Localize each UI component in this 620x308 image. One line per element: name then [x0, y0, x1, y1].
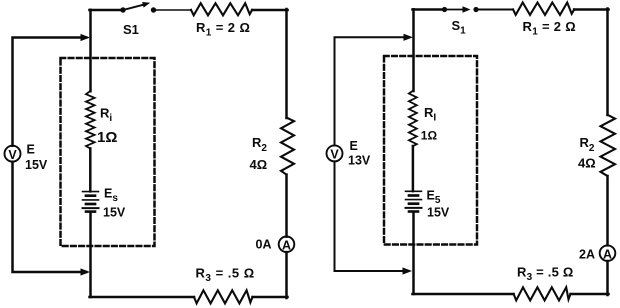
svg-text:15V: 15V: [103, 206, 126, 220]
wire main left vertical lower (left ckt): [89, 212, 92, 297]
dashed box (left source enclosure): [61, 58, 155, 246]
svg-text:R2: R2: [252, 135, 267, 154]
svg-text:2A: 2A: [579, 248, 595, 262]
switch S1 lever arrowhead: [142, 2, 150, 8]
wire top segment to switch (left ckt): [90, 9, 122, 12]
switch S1' contact dot: [473, 7, 478, 12]
svg-text:0A: 0A: [256, 238, 272, 252]
node arrow into left vertical (bottom, right ckt): [403, 267, 413, 274]
resistor R3 (left, .5 ohm): [194, 290, 253, 303]
svg-text:R2: R2: [580, 135, 595, 154]
battery plate short 1: [86, 194, 95, 197]
wire bottom left segment (right ckt): [413, 293, 514, 296]
switch S1' closed lever wire: [445, 9, 463, 11]
svg-text:1Ω: 1Ω: [97, 129, 117, 146]
svg-text:R1 = 2 Ω: R1 = 2 Ω: [523, 19, 576, 38]
switch S1 pivot dot: [120, 7, 125, 12]
battery plate long 2: [83, 199, 99, 201]
svg-text:15V: 15V: [25, 158, 48, 172]
wire voltmeter branch bottom (left): [13, 162, 87, 272]
svg-text:13V: 13V: [348, 154, 371, 168]
switch S1' pivot dot (right, closed): [442, 7, 447, 12]
svg-text:E: E: [350, 139, 358, 153]
svg-text:1Ω: 1Ω: [421, 129, 438, 143]
battery plate short 1 (right): [409, 194, 418, 197]
node arrow into left vertical (top, left ckt): [81, 34, 91, 41]
svg-text:S1: S1: [452, 18, 467, 37]
wire voltmeter branch top (left): [13, 38, 87, 146]
battery E5 (right, 15V): [406, 191, 422, 211]
battery plate short 2: [86, 203, 95, 206]
node arrow into left vertical (bottom, left ckt): [81, 268, 91, 275]
battery plate short 3: [86, 210, 95, 213]
svg-text:R1 = 2 Ω: R1 = 2 Ω: [196, 20, 250, 39]
wire main left vertical mid (right ckt): [412, 146, 415, 191]
battery plate long 2 (right): [406, 199, 422, 201]
wire voltmeter branch bottom (right): [335, 161, 408, 271]
switch S1 lever (open): [123, 4, 145, 10]
wire top segment to switch (right ckt): [413, 8, 444, 11]
svg-text:V: V: [8, 148, 17, 162]
wire ammeter to bottom-right corner (left ckt): [285, 252, 288, 298]
dashed box (right source enclosure): [384, 56, 477, 245]
svg-text:E: E: [27, 143, 35, 157]
ammeter A1 (left): [279, 237, 295, 253]
svg-text:Es: Es: [104, 187, 118, 205]
resistor R2 (right, 4 ohm): [601, 115, 616, 176]
wire right vertical upper (left ckt): [285, 9, 288, 118]
wire bottom right segment (left ckt): [253, 296, 288, 299]
svg-text:R3 = .5 Ω: R3 = .5 Ω: [517, 265, 573, 284]
battery plate long 1 (right): [406, 190, 422, 192]
wire main left vertical mid (left ckt): [89, 148, 92, 191]
wire R1 to top-right corner (left ckt): [252, 9, 287, 12]
wire bottom left segment (left ckt): [90, 296, 195, 299]
switch S1' lever arrowhead (closed): [463, 6, 471, 13]
battery plate short 2 (right): [409, 202, 418, 205]
battery plate long 1: [83, 191, 99, 193]
svg-text:4Ω: 4Ω: [250, 157, 268, 172]
svg-text:V: V: [330, 148, 339, 162]
svg-text:4Ω: 4Ω: [578, 156, 596, 171]
svg-text:E5: E5: [427, 189, 441, 207]
resistor R1 (left, 2 ohm): [191, 3, 252, 15]
wire main left vertical upper (right ckt): [412, 9, 415, 91]
wire main left vertical lower (right ckt): [412, 212, 415, 294]
svg-text:A: A: [282, 239, 291, 253]
resistor R3 (right, .5 ohm): [514, 287, 571, 300]
battery plate short 3 (right): [409, 210, 418, 213]
resistor Ri (left internal, 1 ohm): [86, 91, 95, 149]
resistor R2 (left, 4 ohm): [281, 118, 294, 175]
resistor RI (right internal, 1 ohm): [409, 91, 417, 146]
svg-text:A: A: [603, 247, 612, 261]
wire R2 to ammeter (left ckt): [285, 175, 288, 237]
wire ammeter to bottom-right corner (right ckt): [606, 261, 609, 295]
wire switch to R1 (right ckt): [479, 9, 514, 11]
svg-text:S1: S1: [123, 22, 139, 37]
battery plate long 3: [83, 207, 99, 209]
svg-text:Ri: Ri: [100, 106, 112, 125]
svg-text:R3 = .5 Ω: R3 = .5 Ω: [196, 266, 255, 285]
voltmeter V2 (E 13V): [327, 145, 343, 161]
voltmeter V1 (E 15V): [5, 146, 21, 162]
wire bottom right segment (right ckt): [571, 293, 609, 296]
svg-text:15V: 15V: [427, 206, 450, 220]
svg-text:RI: RI: [424, 105, 436, 124]
wire voltmeter branch top (right): [335, 37, 410, 145]
wire right vertical upper (right ckt): [606, 9, 609, 116]
node arrow into left vertical (top, right ckt): [404, 34, 414, 41]
battery Es (left, 15V): [83, 192, 99, 212]
battery plate long 3 (right): [406, 207, 422, 209]
switch S1 contact dot: [151, 7, 156, 12]
ammeter A2 (right): [600, 245, 616, 261]
wire R1 to top-right corner (right ckt): [574, 8, 608, 11]
wire main left vertical upper (left ckt): [89, 10, 92, 91]
resistor R1 (right, 2 ohm): [513, 3, 574, 15]
wire switch to R1 (thin, left ckt): [156, 9, 191, 11]
wire R2 to ammeter (right ckt): [606, 176, 609, 245]
